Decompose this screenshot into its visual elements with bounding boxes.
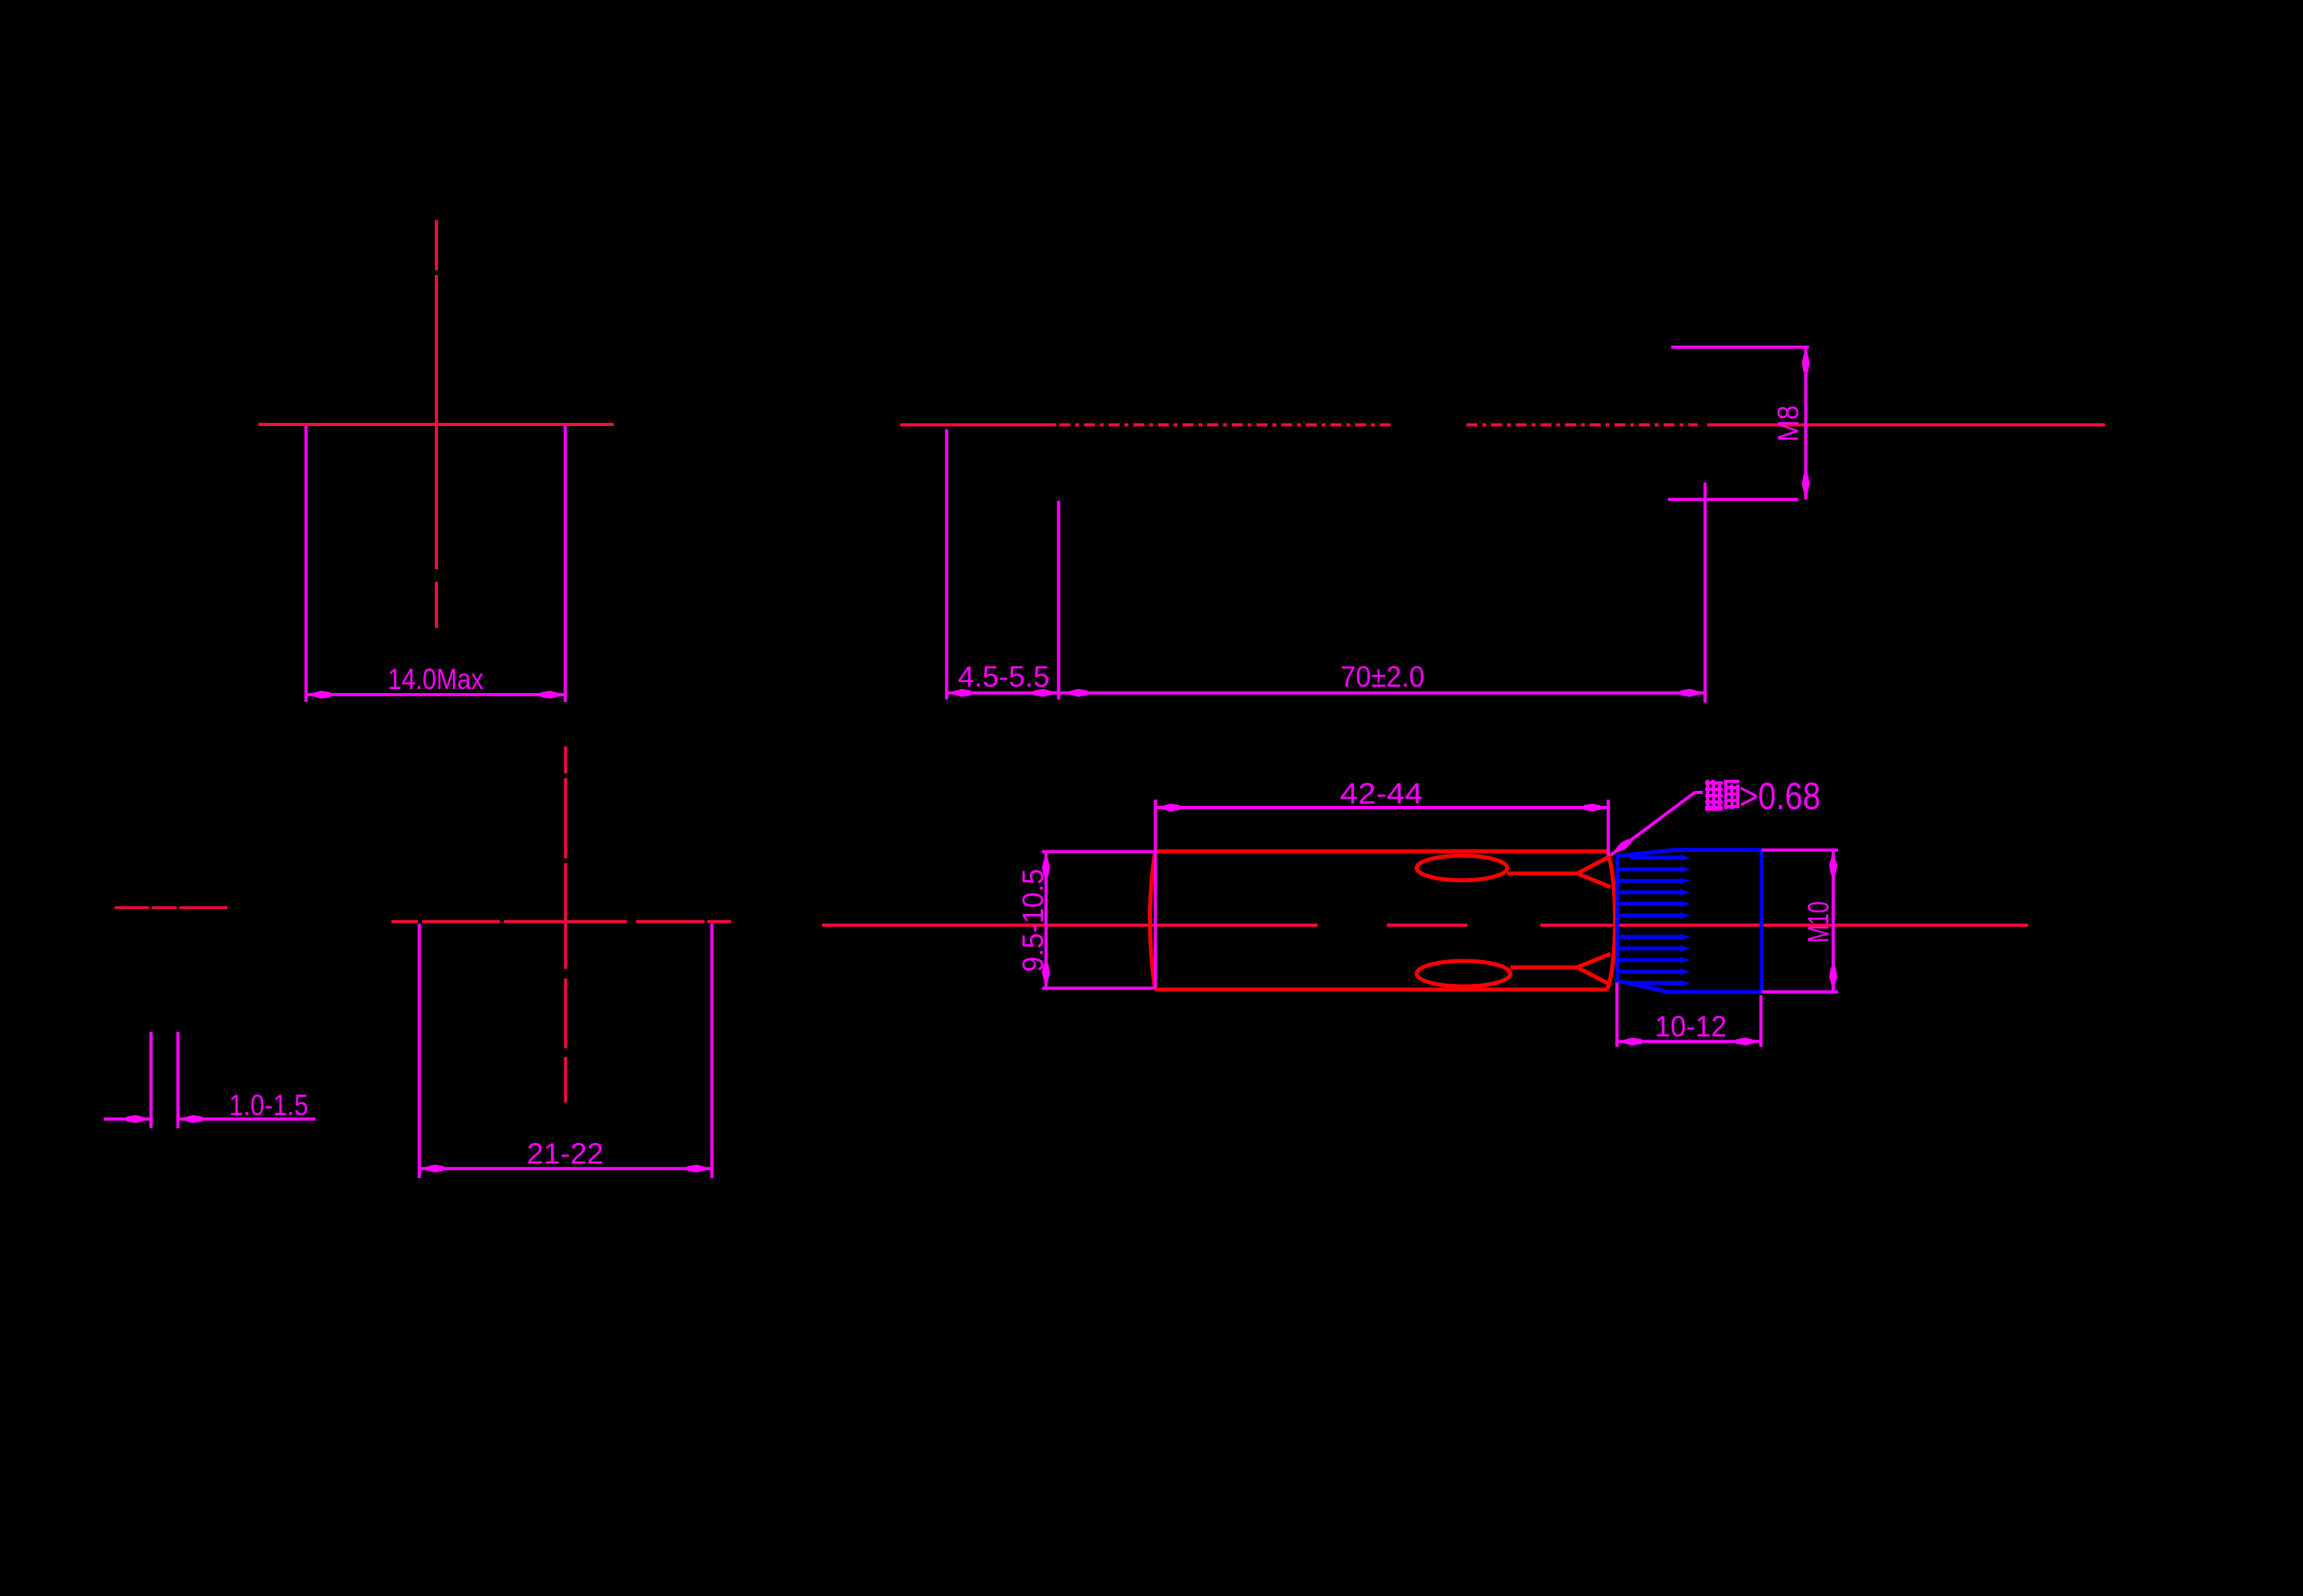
svg-text:14.0Max: 14.0Max	[388, 662, 484, 695]
dim 42-44 dimension line	[1155, 806, 1608, 809]
dim 9.5-10.5 dimension line	[1045, 852, 1048, 989]
svg-text:1.0-1.5: 1.0-1.5	[229, 1088, 308, 1121]
dim 14.0Max dimension line	[306, 693, 565, 696]
svg-text:70±2.0: 70±2.0	[1340, 660, 1425, 693]
view2 centerline solid right segment	[1708, 424, 2106, 427]
arrow top of M10	[1829, 850, 1837, 875]
dim 10-12 dimension line	[1617, 1040, 1761, 1043]
view4 horizontal centerline	[822, 924, 1318, 927]
slot detail line right	[176, 1032, 180, 1128]
cone top chamfer	[1618, 850, 1674, 857]
arrow top of M8	[1802, 347, 1810, 372]
dim 42-44 extension line left	[1153, 800, 1157, 988]
M8 dimension line vertical	[1805, 347, 1808, 500]
arrow left of 21-22	[420, 1164, 444, 1172]
M8 bottom extension line	[1668, 498, 1798, 501]
M8 top extension line	[1671, 346, 1809, 349]
svg-text:21-22: 21-22	[527, 1137, 604, 1170]
dim 9.5-10.5 top extension line	[1042, 850, 1155, 854]
svg-text:9.5-10.5: 9.5-10.5	[1016, 869, 1049, 972]
leader arrowhead	[1611, 839, 1632, 855]
arrow pointing left at slot right line	[178, 1115, 203, 1123]
dim 42-44 extension line right	[1607, 800, 1610, 856]
dim 21-22 extension line left	[418, 924, 421, 1178]
view3 detached dash centerline row	[114, 906, 149, 909]
svg-text:>0.68: >0.68	[1739, 776, 1820, 818]
body right flare arc	[1607, 851, 1615, 990]
body top edge	[1155, 850, 1607, 854]
arrow right of 10-12	[1736, 1037, 1761, 1045]
dim 14.0Max extension line left	[304, 426, 308, 702]
svg-text:42-44: 42-44	[1340, 777, 1423, 810]
arrow left of 14.0Max	[306, 691, 331, 699]
arrow bottom of M8	[1802, 475, 1810, 499]
view2 centerline dash-dot zone 1	[1060, 424, 1394, 427]
dim 9.5-10.5 bottom extension line	[1042, 986, 1155, 990]
fake CJK glyph 厚	[1724, 781, 1739, 809]
upper slit fork	[1577, 857, 1611, 887]
view1 horizontal edge line	[258, 423, 614, 426]
arrow left of 4.5-5.5	[947, 689, 971, 697]
svg-text:M10: M10	[1801, 901, 1835, 943]
view3 horizontal centerline	[391, 920, 417, 924]
arrow bottom of 9.5-10.5	[1042, 963, 1050, 988]
cone left edge	[1615, 856, 1619, 981]
slot detail line left	[149, 1032, 153, 1128]
body bottom edge	[1155, 988, 1607, 992]
view2 centerline solid left segment	[900, 424, 1057, 427]
arrow right of 42-44	[1584, 804, 1608, 812]
arrow right of 70±2.0	[1681, 689, 1705, 697]
view1 vertical centerline	[435, 220, 438, 270]
arrow top of 9.5-10.5	[1042, 852, 1050, 877]
leader line to wall-thickness note	[1611, 792, 1695, 855]
arrow left of 10-12	[1617, 1037, 1642, 1045]
lower inner wall segment	[1510, 966, 1577, 970]
dim 70±2.0 extension line right	[1704, 482, 1707, 703]
dim 4.5-5.5 dimension line	[947, 691, 1059, 695]
svg-text:10-12: 10-12	[1655, 1009, 1727, 1043]
arrow bottom of M10	[1829, 967, 1837, 992]
cone right edge	[1760, 850, 1764, 993]
dim 10-12 extension line right	[1759, 995, 1762, 1047]
svg-text:4.5-5.5: 4.5-5.5	[958, 660, 1050, 693]
body left end arc	[1150, 851, 1156, 990]
arrow pointing right at slot left line	[126, 1115, 151, 1123]
dim 4.5-5.5 extension line left	[945, 429, 948, 699]
arrow right of 14.0Max	[541, 691, 565, 699]
dim 1.0-1.5 right leader line	[178, 1118, 316, 1121]
thread lines	[1630, 856, 1682, 860]
dim 21-22 extension line right	[711, 924, 714, 1178]
dim M10 dimension line	[1832, 850, 1835, 993]
arrow left of 42-44	[1155, 804, 1180, 812]
dim 1.0-1.5 left leader line	[104, 1118, 152, 1121]
cone bottom chamfer	[1618, 981, 1669, 992]
arrow right of 21-22	[688, 1164, 712, 1172]
fake CJK glyph 壁	[1705, 780, 1723, 809]
dim M10 bottom extension line	[1762, 990, 1838, 994]
upper slot ellipse	[1417, 856, 1507, 881]
cone top edge	[1673, 848, 1762, 852]
dim M10 top extension line	[1762, 849, 1838, 852]
upper inner wall segment	[1507, 872, 1577, 876]
arrow right of 4.5-5.5	[1034, 689, 1059, 697]
dim 14.0Max extension line right	[564, 426, 567, 702]
view3 vertical centerline	[564, 746, 568, 773]
dim 10-12 extension line left	[1615, 982, 1619, 1047]
svg-text:M8: M8	[1771, 405, 1805, 442]
dim 70±2.0 dimension line	[1059, 691, 1705, 695]
cone bottom edge	[1668, 990, 1762, 994]
dim 21-22 dimension line	[420, 1167, 712, 1170]
dim 4.5-5.5 extension line right	[1057, 501, 1060, 699]
lower slot ellipse	[1417, 961, 1510, 986]
arrow left of 70±2.0	[1063, 689, 1088, 697]
lower slit fork	[1577, 954, 1611, 984]
view2 centerline dash-dot zone 2	[1467, 424, 1698, 427]
